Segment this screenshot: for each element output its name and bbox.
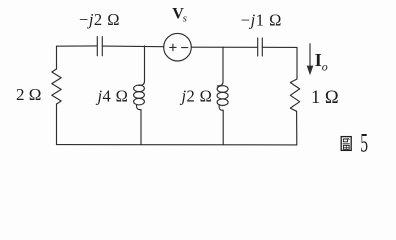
svg-text:5: 5 [360, 129, 368, 158]
wire top segment left (top-left corner to C1) [57, 45, 98, 47]
wire j4 branch upper stub [139, 46, 145, 85]
capacitor C2 (-j1 ohm) [258, 38, 263, 56]
label j4 ohm [96, 87, 129, 106]
wire top segment C1 to source Vs [102, 45, 164, 48]
wire j4 branch lower stub [136, 104, 141, 144]
inductor L1 j4 ohm coil [134, 85, 145, 105]
svg-text:1 Ω: 1 Ω [311, 88, 339, 108]
source plus sign [170, 44, 176, 51]
wire bottom rail [57, 144, 297, 146]
label Io [315, 50, 328, 73]
wire top segment C2 to top-right corner [262, 46, 297, 48]
svg-text:−j1 Ω: −j1 Ω [241, 10, 282, 29]
current arrow Io [307, 44, 314, 75]
wire right branch upper stub [296, 47, 298, 79]
label j2 ohm [180, 87, 213, 106]
svg-text:s: s [183, 13, 187, 25]
svg-text:I: I [315, 50, 322, 70]
svg-text:2 Ω: 2 Ω [16, 85, 41, 104]
label Vs [172, 5, 187, 24]
svg-text:j2 Ω: j2 Ω [180, 87, 213, 106]
label 2 ohm [16, 85, 41, 104]
caption number 5 [360, 129, 368, 158]
inductor L2 j2 ohm coil [217, 86, 228, 106]
wire j2 branch lower stub [219, 105, 223, 145]
svg-text:j4 Ω: j4 Ω [96, 87, 129, 106]
capacitor C1 (-j2 ohm) [97, 37, 102, 56]
label -j1 ohm [241, 10, 282, 29]
wire top segment source to C2 with node at j2 branch [191, 46, 257, 48]
resistor R2 1 ohm [290, 79, 299, 111]
svg-text:−j2 Ω: −j2 Ω [79, 10, 120, 29]
voltage source Vs circle [164, 33, 192, 61]
label 1 ohm [311, 88, 339, 108]
wire left branch upper stub [56, 46, 58, 69]
wire j2 branch upper stub [217, 47, 223, 86]
wire left branch lower stub [56, 104, 58, 145]
wire right branch lower stub [296, 111, 298, 145]
resistor R1 2 ohm [52, 69, 61, 104]
label -j2 ohm [79, 10, 120, 29]
caption figure glyph (CJK tu) [341, 137, 351, 151]
svg-text:o: o [322, 60, 328, 74]
source minus sign [182, 47, 188, 49]
